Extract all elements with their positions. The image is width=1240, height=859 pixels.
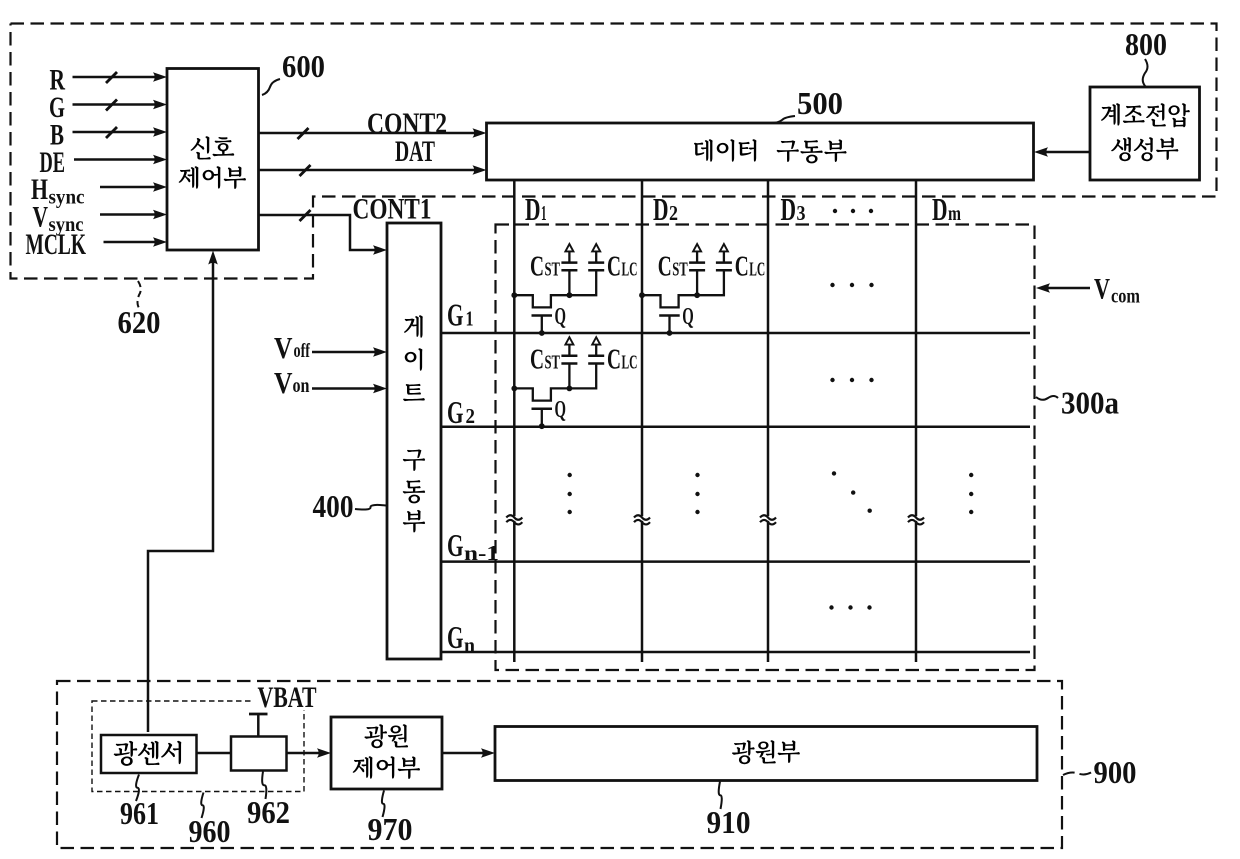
svg-text:970: 970	[368, 811, 413, 847]
TFT Q gate electrode	[659, 314, 680, 317]
wire DAT	[259, 169, 476, 172]
capacitor CST	[568, 364, 570, 388]
input wires with arrowheads	[73, 76, 156, 79]
leader squiggle for 962	[262, 772, 266, 800]
gate driver box U400 게이트 구동부	[387, 223, 441, 659]
svg-text:C: C	[530, 251, 544, 283]
svg-text:D: D	[653, 191, 669, 227]
svg-text:com: com	[1111, 286, 1140, 308]
wire from light sensor 961 up to signal controller 600	[148, 258, 213, 732]
label VBAT	[254, 684, 319, 710]
svg-text:C: C	[607, 344, 621, 376]
svg-text:C: C	[530, 344, 544, 376]
leader dash for 300a	[1036, 396, 1058, 400]
svg-text:C: C	[735, 251, 749, 283]
TFT Q source/drain wire	[514, 364, 596, 400]
Vcom label and arrow	[1047, 287, 1090, 290]
leader squiggle for 500	[771, 116, 795, 123]
svg-text:1: 1	[466, 307, 474, 331]
backlight unit dashed box 900	[57, 681, 1062, 848]
svg-text:2: 2	[466, 404, 476, 428]
svg-text:G: G	[447, 619, 464, 655]
light source controller box 970 광원 제어부	[331, 717, 442, 789]
row ellipsis dots pixel row 2	[830, 378, 834, 382]
TFT Q source/drain wire	[642, 271, 724, 307]
svg-text:m: m	[948, 201, 961, 225]
svg-text:620: 620	[118, 304, 161, 340]
row ellipsis dots pixel row 1	[830, 283, 834, 287]
svg-text:G: G	[447, 527, 464, 563]
VBAT terminal bar	[249, 713, 268, 716]
signal controller box U600 신호 제어부	[167, 69, 259, 251]
component 962 box	[231, 737, 287, 771]
data line wire x=768	[767, 180, 770, 662]
svg-text:LC: LC	[749, 259, 765, 281]
svg-text:ST: ST	[545, 352, 561, 374]
leader squiggle for 800	[1143, 59, 1148, 87]
wire 800 to 500	[1045, 151, 1090, 154]
data line wire x=642	[641, 180, 644, 662]
data line wire x=916	[915, 180, 918, 662]
svg-text:910: 910	[707, 804, 751, 840]
light sensor box 961 광센서	[101, 735, 197, 773]
svg-text:LC: LC	[622, 352, 638, 374]
diagonal ellipsis dots	[832, 471, 836, 475]
leader squiggle for 600	[262, 79, 280, 95]
svg-text:n-1: n-1	[464, 541, 499, 565]
svg-text:300a: 300a	[1061, 385, 1119, 421]
svg-text:D: D	[525, 191, 541, 227]
TFT Q source/drain wire	[514, 271, 596, 307]
svg-text:900: 900	[1094, 754, 1137, 790]
ellipsis dots between D3 and Dm	[833, 209, 837, 213]
wire 970 to 910	[442, 752, 484, 755]
svg-text:D: D	[932, 191, 948, 227]
svg-text:C: C	[607, 251, 621, 283]
data line wire x=514.3	[513, 180, 516, 662]
svg-text:961: 961	[120, 795, 159, 831]
dashed enclosure top region 620 boundary	[11, 24, 1217, 279]
svg-text:off: off	[294, 340, 311, 362]
svg-text:VBAT: VBAT	[258, 681, 317, 714]
svg-text:sync: sync	[49, 187, 85, 209]
svg-text:V: V	[274, 330, 293, 365]
capacitor CST	[696, 271, 698, 295]
gate line wire y=426.7	[441, 425, 1030, 428]
svg-text:Q: Q	[682, 304, 694, 330]
vertical ellipsis dots in panel	[568, 473, 572, 477]
svg-text:V: V	[274, 365, 293, 400]
svg-text:G: G	[447, 394, 464, 430]
svg-text:Q: Q	[555, 304, 567, 330]
svg-text:2: 2	[669, 201, 678, 225]
wire 962 to 970	[287, 752, 321, 755]
gate line wire y=333	[441, 332, 1030, 335]
svg-text:Q: Q	[555, 397, 567, 423]
light sensing unit dashed box 960	[92, 701, 304, 792]
svg-text:CONT1: CONT1	[353, 193, 432, 226]
light source box 910 광원부	[495, 727, 1037, 781]
TFT Q gate electrode	[532, 407, 553, 410]
wire CONT2	[259, 132, 476, 135]
row ellipsis dots bottom row	[829, 605, 833, 609]
wire CONT1	[259, 215, 377, 250]
leader dash for 900	[1063, 772, 1092, 775]
leader squiggle for 400	[355, 505, 386, 510]
svg-text:962: 962	[247, 794, 290, 830]
svg-text:3: 3	[797, 201, 806, 225]
svg-text:600: 600	[282, 48, 325, 84]
leader squiggle for 970	[382, 791, 385, 818]
svg-text:n: n	[464, 633, 475, 657]
gray voltage generator box U800 계조전압 생성부	[1090, 87, 1200, 180]
svg-text:ST: ST	[545, 259, 561, 281]
capacitor CLC	[716, 269, 732, 272]
leader squiggle for 910	[719, 782, 722, 810]
capacitor CLC	[588, 362, 604, 365]
gate line wire y=652	[441, 651, 1030, 654]
svg-text:1: 1	[541, 201, 547, 225]
capacitor CST	[568, 271, 570, 295]
capacitor CLC	[588, 269, 604, 272]
line break marks on data lines	[512, 516, 516, 521]
panel dashed box 300a	[496, 225, 1035, 671]
wire 961 to 962	[197, 752, 232, 755]
svg-text:C: C	[658, 251, 672, 283]
leader squiggle for 960	[201, 793, 204, 819]
svg-text:D: D	[781, 191, 797, 227]
leader squiggle for 961	[136, 775, 139, 802]
svg-text:DAT: DAT	[395, 135, 435, 168]
svg-text:MCLK: MCLK	[26, 228, 87, 261]
gate line wire y=561.6	[441, 560, 1030, 563]
bus slashes on R G B	[106, 72, 117, 83]
TFT Q gate electrode	[532, 314, 553, 317]
svg-text:LC: LC	[622, 259, 638, 281]
svg-text:V: V	[1094, 273, 1110, 306]
svg-text:ST: ST	[672, 259, 688, 281]
svg-text:500: 500	[797, 85, 843, 121]
svg-text:G: G	[447, 297, 464, 333]
svg-text:960: 960	[189, 813, 231, 849]
leader dashed squiggle for 620	[138, 281, 141, 308]
data driver box U500 데이터 구동부	[487, 123, 1034, 180]
svg-text:on: on	[293, 375, 310, 397]
svg-text:800: 800	[1125, 26, 1167, 62]
svg-text:400: 400	[313, 488, 354, 524]
